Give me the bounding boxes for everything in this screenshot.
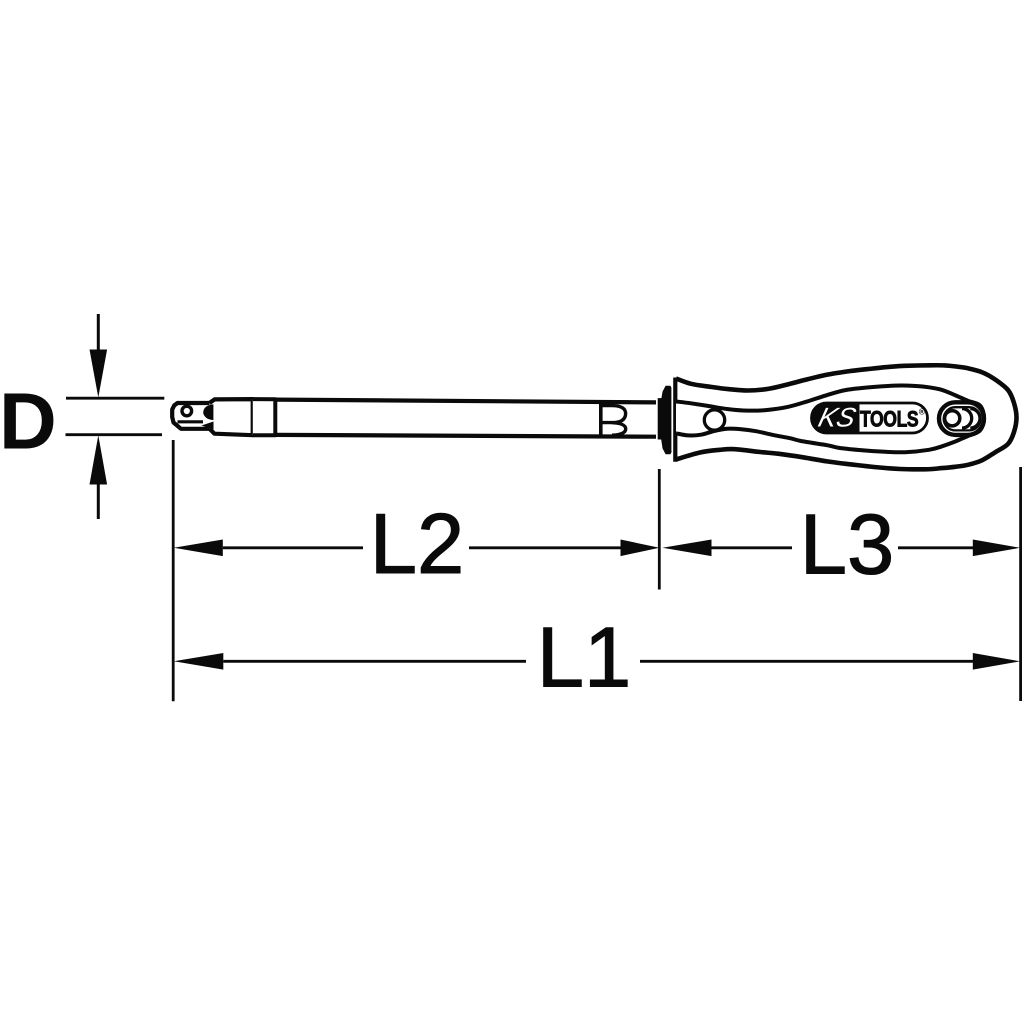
extension line D bottom: [66, 433, 163, 436]
handle hole: [704, 410, 724, 430]
grip inlay contour: [676, 385, 984, 452]
drive bottom facet line: [178, 420, 204, 423]
end cap circle: [945, 411, 960, 426]
svg-text:®: ®: [919, 407, 926, 417]
svg-text:KS: KS: [815, 402, 859, 433]
L3 dimension line: [663, 540, 1021, 557]
end cap arc 2: [970, 409, 980, 428]
adapter sleeve: [210, 399, 253, 435]
extension line middle: [658, 469, 661, 590]
svg-text:L3: L3: [800, 497, 895, 592]
end cap arc 1: [962, 409, 972, 428]
ball detent hole: [182, 406, 192, 416]
handle front face white gap: [671, 388, 673, 452]
end cap outer stadium: [939, 402, 984, 435]
svg-text:L1: L1: [537, 611, 632, 706]
dimension label D: [0, 377, 57, 466]
sleeve ring section: [253, 399, 275, 435]
handle front face: [673, 378, 677, 462]
svg-text:TOOLS: TOOLS: [860, 408, 918, 432]
D dimension arrow bottom: [90, 435, 108, 519]
handle outer outline: [676, 365, 1017, 469]
square drive tip: [172, 403, 210, 429]
sleeve divider line: [251, 399, 255, 435]
svg-text:L2: L2: [370, 497, 465, 592]
shaft bottom line: [275, 435, 656, 437]
extension line D top: [66, 397, 164, 400]
shaft groove B feature: [601, 402, 626, 436]
ferrule: [662, 386, 672, 453]
drive crescent: [203, 404, 213, 420]
L1 dimension line: [174, 653, 1020, 670]
svg-text:D: D: [0, 377, 57, 466]
KS Tools logo stadium: [812, 403, 928, 433]
KS Tools logo black pill: [812, 403, 860, 433]
L2 dimension line: [174, 540, 660, 557]
drive chamfer triangle: [202, 422, 214, 430]
D dimension arrow top: [90, 314, 108, 398]
shaft top line: [275, 400, 656, 403]
extension line right: [1019, 467, 1022, 701]
shaft collar step: [658, 399, 662, 439]
extension line left: [172, 440, 175, 701]
end cap inner stadium: [944, 407, 981, 430]
